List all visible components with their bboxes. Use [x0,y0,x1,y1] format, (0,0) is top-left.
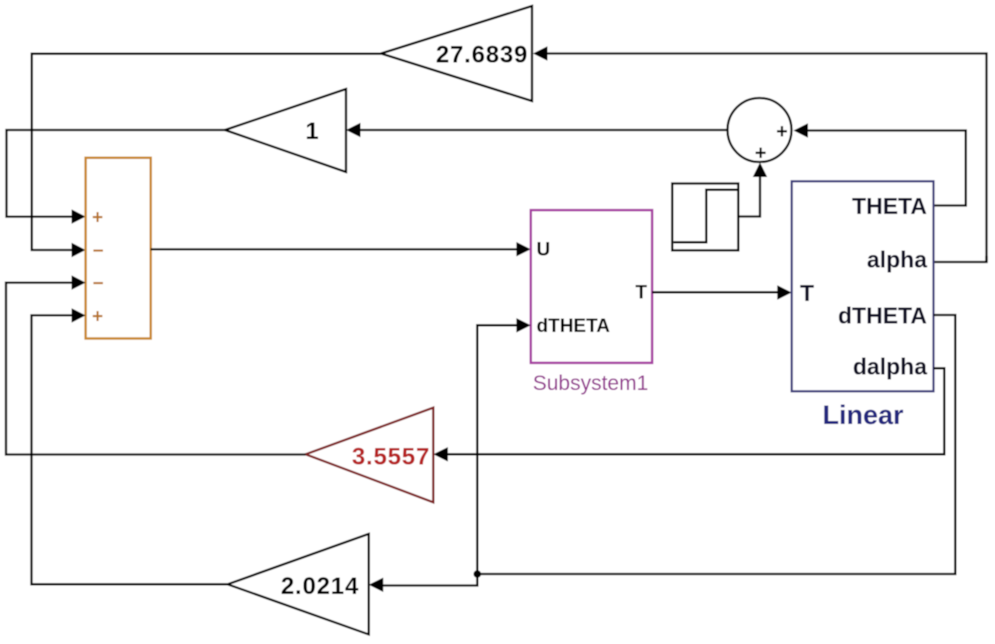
wire Linear dTHETA output to junction and gain K4 input [369,315,956,592]
sum block Sum [86,158,151,339]
wire gain K1 output to sum input 2 [32,54,381,258]
wire junction to Subsystem1 dTHETA input [477,318,531,574]
svg-text:Subsystem1: Subsystem1 [533,372,649,395]
wire gain K3 output to sum input 3 [6,275,306,454]
step source block [672,184,738,251]
sum circle Sum1 [728,98,792,164]
junction dot on dTHETA feedback [474,570,482,578]
subsystem block Subsystem1 [531,210,652,395]
svg-text:+: + [92,306,103,327]
wire sum output to Subsystem1 U input [151,242,531,256]
svg-text:2.0214: 2.0214 [281,573,359,600]
wire gain K4 output to sum input 4 [32,308,228,584]
svg-text:+: + [755,142,767,164]
svg-text:T: T [800,280,814,306]
svg-text:Linear: Linear [822,400,904,430]
gain K1 27.6839 [381,6,532,101]
wire sum circle output to gain K2 input [346,123,728,137]
gain K2 1 [225,89,346,172]
wire Linear alpha output up right side [934,256,987,262]
wire Subsystem1 T output to Linear T input [652,285,792,299]
svg-text:THETA: THETA [852,193,927,219]
svg-text:dTHETA: dTHETA [537,316,611,337]
svg-text:+: + [92,208,103,229]
wire step output to sum circle [738,163,767,217]
wire Linear dalpha output to gain K3 input [433,368,944,461]
gain K4 2.0214 [228,534,369,635]
svg-text:1: 1 [305,118,318,145]
svg-text:+: + [776,121,788,143]
svg-text:dTHETA: dTHETA [838,302,927,328]
svg-text:dalpha: dalpha [853,353,927,379]
svg-text:alpha: alpha [867,246,927,272]
svg-text:T: T [635,283,647,304]
wire Linear THETA output to sum circle input [794,123,966,205]
svg-text:−: − [92,241,103,262]
gain K3 3.5557 [306,408,434,503]
svg-text:−: − [92,274,103,295]
wire alpha to gain K1 input [533,46,987,262]
svg-text:U: U [537,239,551,260]
linear plant block Linear [792,181,934,430]
svg-text:27.6839: 27.6839 [436,42,528,69]
wire gain K2 output to sum input 1 [7,130,226,224]
svg-text:3.5557: 3.5557 [352,444,430,471]
